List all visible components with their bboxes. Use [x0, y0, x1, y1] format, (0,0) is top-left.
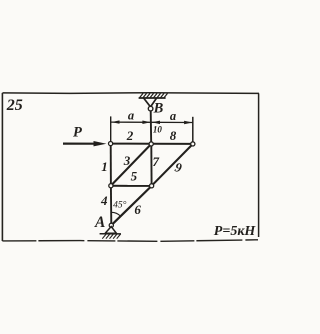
svg-text:2: 2	[126, 128, 134, 143]
svg-text:A: A	[94, 214, 105, 231]
svg-text:45°: 45°	[113, 199, 127, 210]
svg-text:7: 7	[152, 154, 159, 169]
svg-text:a: a	[128, 109, 134, 123]
svg-text:a: a	[170, 109, 176, 123]
svg-text:3: 3	[123, 153, 131, 168]
svg-text:5: 5	[131, 169, 138, 184]
svg-text:B: B	[153, 100, 164, 116]
svg-text:6: 6	[134, 202, 141, 217]
svg-text:8: 8	[170, 128, 177, 143]
svg-text:10: 10	[153, 124, 163, 134]
svg-text:P: P	[73, 125, 82, 141]
svg-text:25: 25	[6, 97, 23, 114]
svg-text:1: 1	[101, 159, 108, 174]
svg-text:4: 4	[100, 193, 108, 208]
svg-text:P=5кН: P=5кН	[214, 224, 257, 239]
